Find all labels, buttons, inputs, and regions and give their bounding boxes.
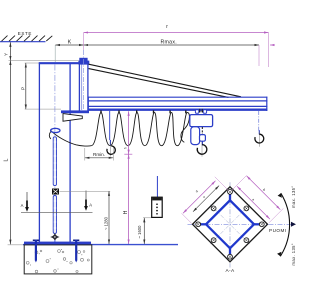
svg-text:H: H — [123, 210, 129, 214]
A-A dim inner right — [237, 186, 270, 219]
svg-text:A: A — [89, 203, 92, 208]
chain break symbol box — [52, 189, 59, 195]
floor line — [8, 244, 24, 246]
vertical centerline — [229, 182, 231, 267]
extension pivot axis to dims — [83, 33, 85, 51]
extension line r right — [268, 33, 270, 68]
dimension Rmin — [85, 147, 114, 161]
dimension K — [55, 40, 83, 46]
base plate — [24, 242, 91, 245]
tie rod — [89, 64, 241, 97]
svg-text:~ 1600: ~ 1600 — [137, 225, 142, 239]
diagonal centerline 2 — [210, 205, 250, 245]
dimension ~1280 — [60, 191, 111, 244]
svg-text:Rmin.: Rmin. — [93, 152, 105, 157]
svg-text:ESTE: ESTE — [18, 31, 32, 36]
diagonal centerline 1 — [210, 205, 250, 245]
hook at min radius — [107, 142, 115, 157]
section A-A cut line — [21, 211, 93, 213]
festoon hangers — [101, 110, 186, 113]
chain tail to base — [54, 240, 56, 242]
svg-text:~ 1280: ~ 1280 — [104, 216, 109, 230]
cable bracket wedge — [63, 114, 82, 122]
dimension Rmax — [84, 40, 275, 46]
hook at max radius — [255, 132, 264, 147]
trolley wheels — [195, 109, 206, 113]
column — [39, 63, 79, 243]
svg-text:K: K — [68, 40, 72, 46]
chain handle diamond — [51, 234, 58, 240]
svg-text:L: L — [4, 159, 10, 162]
horizontal centerline — [188, 223, 292, 225]
jib beam — [88, 97, 267, 111]
extension line top of pivot — [9, 59, 79, 61]
PUOMI direction arrow — [291, 222, 296, 227]
A-A dim outer right — [231, 176, 283, 223]
column tube section — [206, 200, 254, 248]
K extension of column axis — [54, 45, 56, 62]
svg-text:A-A: A-A — [226, 268, 235, 274]
section arrow left — [21, 192, 29, 212]
hoist body — [190, 115, 213, 127]
svg-text:max. 135°: max. 135° — [291, 186, 296, 209]
pivot head — [78, 58, 89, 111]
chain container bag — [191, 127, 200, 145]
svg-text:h: h — [123, 147, 127, 149]
outer base plate diamond — [193, 187, 268, 262]
hook shank trolley — [201, 141, 203, 145]
svg-text:r: r — [166, 24, 168, 30]
svg-text:a: a — [195, 189, 199, 193]
section arrow right — [84, 191, 92, 211]
pendant control station — [152, 197, 163, 217]
anchor bolt right — [73, 240, 79, 263]
svg-text:Rmax.: Rmax. — [161, 40, 178, 46]
dimension P — [20, 63, 61, 109]
chain link fitting — [200, 135, 206, 142]
A-A dim outer left — [182, 177, 229, 224]
A-A dim inner left (black) — [193, 186, 219, 212]
dimension L — [4, 60, 11, 244]
svg-text:max. 135°: max. 135° — [291, 243, 296, 266]
max radius hook hanger — [258, 111, 260, 131]
svg-text:e: e — [202, 195, 206, 199]
svg-text:P: P — [20, 87, 25, 90]
cable tail left of ellipse — [49, 132, 50, 139]
ceiling obstacle line ESTE — [0, 31, 52, 42]
svg-text:PUOMI: PUOMI — [269, 228, 287, 233]
dimension r — [84, 24, 269, 33]
pendant control wire — [156, 176, 158, 197]
hand chain upper — [53, 137, 56, 186]
slewing arc — [280, 193, 289, 256]
corner stubs — [198, 192, 263, 257]
hook at trolley — [197, 142, 207, 157]
min radius hook hanger — [109, 111, 111, 140]
head bottom plate — [61, 110, 89, 113]
pivot axis centerline — [83, 50, 85, 113]
column centerline — [54, 65, 56, 268]
dimension H — [123, 111, 132, 244]
A-A section view — [188, 182, 292, 267]
foundation block — [24, 245, 92, 274]
chain guide ellipse — [51, 128, 60, 132]
festoon cable — [51, 113, 190, 147]
hand chain lower — [53, 196, 56, 234]
bolts — [196, 190, 264, 260]
extension line Rmax right — [258, 45, 260, 66]
anchor bolt left — [33, 240, 39, 263]
svg-text:Y: Y — [4, 53, 9, 56]
dimension ~1600 — [137, 218, 152, 244]
hoist chain — [201, 127, 203, 135]
svg-text:A: A — [21, 203, 24, 208]
dimension Y — [4, 42, 11, 60]
